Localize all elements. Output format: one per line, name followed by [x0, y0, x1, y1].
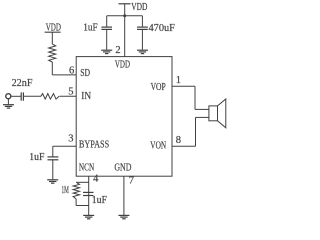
svg-text:VOP: VOP — [151, 81, 166, 93]
svg-text:4: 4 — [93, 173, 99, 184]
svg-text:5: 5 — [68, 87, 73, 98]
svg-text:1uF: 1uF — [29, 151, 44, 163]
svg-text:VDD: VDD — [46, 22, 61, 34]
svg-text:SD: SD — [80, 67, 90, 79]
svg-text:1M: 1M — [62, 184, 69, 196]
svg-text:1uF: 1uF — [83, 22, 97, 34]
svg-text:VDD: VDD — [131, 1, 147, 13]
svg-text:VON: VON — [150, 140, 166, 152]
svg-text:GND: GND — [114, 162, 131, 174]
svg-text:IN: IN — [81, 90, 91, 102]
svg-text:3: 3 — [68, 134, 73, 145]
svg-text:NCN: NCN — [79, 162, 94, 174]
svg-text:22nF: 22nF — [12, 77, 33, 89]
svg-text:6: 6 — [69, 65, 74, 76]
svg-text:8: 8 — [176, 135, 181, 146]
svg-text:470uF: 470uF — [149, 22, 175, 34]
svg-text:VDD: VDD — [115, 59, 130, 71]
svg-text:BYPASS: BYPASS — [79, 139, 109, 151]
svg-text:1uF: 1uF — [92, 194, 107, 206]
svg-text:1: 1 — [176, 75, 181, 86]
svg-text:2: 2 — [115, 45, 120, 56]
svg-text:7: 7 — [129, 176, 134, 187]
